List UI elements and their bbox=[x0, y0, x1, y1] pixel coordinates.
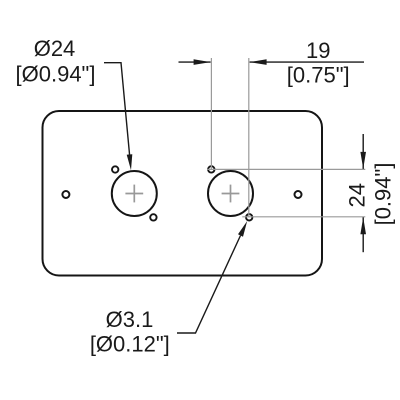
leader arrowhead for Ø3.1 bbox=[238, 221, 247, 237]
center mark C2 bbox=[222, 185, 240, 203]
svg-text:Ø24: Ø24 bbox=[34, 36, 76, 61]
svg-text:[Ø0.12"]: [Ø0.12"] bbox=[90, 332, 170, 357]
extension line horizontal at S3 bbox=[207, 168, 365, 170]
plate outline bbox=[43, 111, 323, 276]
dimension 24 bottom tail bbox=[362, 217, 364, 252]
side mounting hole right bbox=[295, 191, 302, 198]
leader line for Ø24 bbox=[104, 63, 130, 156]
dimension 24 top arrowhead bbox=[360, 152, 366, 169]
extension line vertical at S4 bbox=[248, 58, 250, 217]
small hole S2 (left circle bottom-right Ø3.1) bbox=[150, 214, 156, 220]
leader arrowhead for Ø24 bbox=[127, 154, 133, 170]
svg-text:[0.75"]: [0.75"] bbox=[287, 63, 350, 88]
dimension 19 left arrowhead bbox=[194, 59, 211, 65]
leader line for Ø3.1 bbox=[177, 236, 241, 334]
svg-text:19: 19 bbox=[306, 38, 330, 63]
small hole S3 (right circle top-left Ø3.1) bbox=[208, 166, 214, 172]
svg-text:[Ø0.94"]: [Ø0.94"] bbox=[16, 62, 96, 87]
dimension 24 top tail bbox=[362, 134, 364, 169]
center mark C1 bbox=[125, 185, 143, 203]
dimension 24 bottom arrowhead bbox=[360, 217, 366, 234]
dimension 19 left tail bbox=[179, 61, 211, 63]
hole C1 (left Ø24) bbox=[112, 171, 157, 216]
dimension 19 right tail bbox=[250, 61, 364, 63]
side mounting hole left bbox=[62, 191, 69, 198]
dimension 19 right arrowhead bbox=[250, 59, 267, 65]
svg-text:Ø3.1: Ø3.1 bbox=[106, 307, 154, 332]
hole C2 (right Ø24) bbox=[208, 171, 253, 216]
small hole S4 (right circle bottom-right Ø3.1) bbox=[246, 214, 252, 220]
extension line vertical at S3 bbox=[210, 58, 212, 169]
svg-text:24: 24 bbox=[345, 183, 370, 207]
small hole S1 (left circle top-left Ø3.1) bbox=[112, 166, 118, 172]
svg-text:[0.94"]: [0.94"] bbox=[371, 163, 396, 226]
extension line horizontal at S4 bbox=[242, 216, 365, 218]
